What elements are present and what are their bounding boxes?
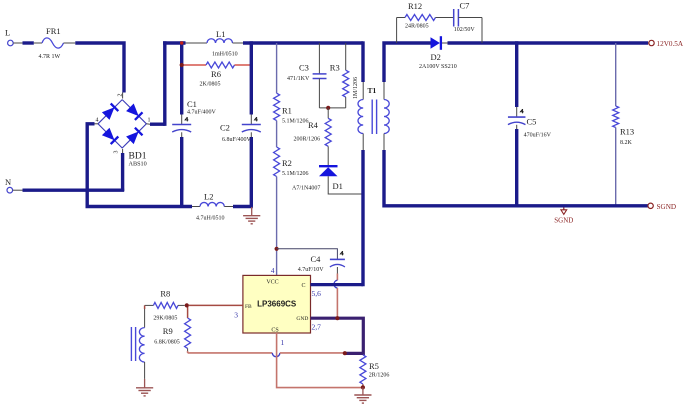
wire R2 to VCC pin bbox=[276, 177, 278, 276]
svg-text:1: 1 bbox=[281, 338, 285, 347]
svg-text:470uF/16V: 470uF/16V bbox=[524, 133, 552, 139]
junction FB node bbox=[185, 303, 189, 307]
svg-text:C1: C1 bbox=[187, 99, 197, 109]
wire FB to chip bbox=[189, 304, 243, 306]
resistor R4 bbox=[294, 108, 332, 165]
svg-text:SGND: SGND bbox=[657, 203, 677, 211]
svg-text:R3: R3 bbox=[330, 63, 340, 73]
wire D2 to output bbox=[448, 41, 649, 44]
svg-text:8.2K: 8.2K bbox=[620, 140, 633, 146]
svg-text:4: 4 bbox=[96, 118, 99, 124]
wire T1 secondary top bbox=[384, 43, 431, 82]
wire L to bridge pin2 bbox=[75, 43, 124, 99]
wire VCC to C4 bbox=[277, 249, 338, 260]
wire CS pin down bbox=[277, 333, 361, 388]
svg-text:A7/1N4007: A7/1N4007 bbox=[292, 186, 320, 192]
fusible resistor FR1 bbox=[23, 26, 76, 60]
diode D2 bbox=[419, 36, 457, 70]
svg-text:5,6: 5,6 bbox=[312, 289, 322, 298]
secondary ground rail bbox=[384, 150, 648, 206]
svg-text:5.1M/1206: 5.1M/1206 bbox=[282, 119, 309, 125]
svg-text:2: 2 bbox=[118, 94, 124, 97]
junction R6 left bbox=[180, 63, 184, 67]
resistor R5 bbox=[360, 355, 389, 388]
svg-text:R13: R13 bbox=[620, 127, 634, 137]
svg-text:R4: R4 bbox=[308, 120, 319, 130]
svg-text:C7: C7 bbox=[460, 1, 470, 11]
svg-text:24R/0805: 24R/0805 bbox=[405, 24, 429, 30]
wire rail to T1 primary bbox=[361, 41, 364, 82]
svg-text:CS: CS bbox=[271, 328, 278, 334]
power symbol SGND bbox=[554, 208, 573, 225]
resistor R13 bbox=[613, 43, 634, 206]
aux ground bbox=[136, 379, 153, 396]
input terminal L bbox=[5, 28, 23, 46]
svg-text:C: C bbox=[301, 283, 305, 289]
capacitor C2 bbox=[220, 41, 261, 206]
svg-text:N: N bbox=[5, 177, 11, 187]
junction VCC node bbox=[275, 247, 279, 251]
svg-text:R5: R5 bbox=[369, 361, 379, 371]
snubber wire left leg bbox=[396, 18, 398, 44]
svg-text:FR1: FR1 bbox=[46, 26, 61, 36]
svg-text:C2: C2 bbox=[220, 123, 230, 133]
svg-text:471/1KV: 471/1KV bbox=[287, 76, 310, 82]
resistor R2 bbox=[274, 147, 309, 177]
svg-text:2R/1206: 2R/1206 bbox=[369, 373, 390, 379]
svg-text:FB: FB bbox=[245, 304, 252, 310]
wire R1 to R2 bbox=[276, 121, 278, 147]
inductor L1 bbox=[186, 29, 244, 58]
svg-text:4.7uF/400V: 4.7uF/400V bbox=[187, 110, 217, 116]
wire DC+ rail right bbox=[243, 41, 363, 44]
wire C4 to GND net with hop bbox=[334, 274, 337, 318]
input terminal N bbox=[5, 177, 23, 193]
capacitor C4 bbox=[298, 251, 345, 273]
R5 ground bbox=[354, 387, 371, 403]
svg-text:4.7R 1W: 4.7R 1W bbox=[39, 54, 61, 60]
svg-text:1mH/0510: 1mH/0510 bbox=[212, 52, 238, 58]
svg-text:4.7uH/0510: 4.7uH/0510 bbox=[196, 216, 225, 222]
wire C pin to switch node bbox=[311, 283, 364, 286]
junction rail C1 bbox=[180, 41, 183, 44]
svg-text:L2: L2 bbox=[204, 192, 213, 202]
svg-text:12V0.5A: 12V0.5A bbox=[657, 40, 684, 48]
bridge rectifier BD1 bbox=[96, 94, 151, 168]
aux winding bbox=[131, 305, 144, 379]
snubber wire right leg bbox=[481, 18, 483, 44]
resistor R9 bbox=[154, 305, 190, 351]
svg-text:R6: R6 bbox=[211, 69, 221, 79]
svg-text:R12: R12 bbox=[408, 1, 422, 11]
svg-text:L: L bbox=[5, 28, 10, 38]
svg-text:6.8uF/400V: 6.8uF/400V bbox=[222, 137, 252, 143]
svg-text:R8: R8 bbox=[160, 289, 170, 299]
svg-text:1M/1206: 1M/1206 bbox=[353, 77, 359, 99]
primary ground under C2 bbox=[243, 207, 260, 224]
svg-text:L1: L1 bbox=[216, 29, 225, 39]
svg-text:R1: R1 bbox=[282, 106, 292, 116]
resistor R3 bbox=[330, 43, 359, 108]
wire bridge pin1 to DC rail bbox=[146, 41, 164, 126]
svg-text:5.1M/1206: 5.1M/1206 bbox=[282, 171, 309, 177]
svg-text:2,7: 2,7 bbox=[312, 323, 322, 332]
wire DC+ rail left bbox=[163, 41, 185, 44]
resistor R6 bbox=[182, 62, 252, 88]
capacitor C5 bbox=[508, 41, 552, 206]
wire N to bridge pin3 bbox=[23, 149, 125, 191]
svg-text:4.7uF/10V: 4.7uF/10V bbox=[298, 267, 325, 273]
svg-text:3: 3 bbox=[114, 151, 120, 154]
wire R9 to CS node bbox=[188, 351, 347, 357]
junction R5 bottom bbox=[361, 385, 365, 389]
svg-text:R2: R2 bbox=[282, 158, 292, 168]
svg-text:T1: T1 bbox=[368, 86, 377, 95]
output terminal 12V bbox=[648, 40, 684, 48]
capacitor C1 bbox=[172, 41, 216, 206]
svg-text:GND: GND bbox=[296, 316, 308, 322]
svg-text:4: 4 bbox=[271, 266, 275, 275]
svg-text:6.8K/0805: 6.8K/0805 bbox=[154, 340, 180, 346]
transformer T1 bbox=[358, 82, 389, 150]
svg-text:ABS10: ABS10 bbox=[129, 161, 147, 168]
svg-text:200R/1206: 200R/1206 bbox=[294, 137, 321, 143]
svg-text:2K/0805: 2K/0805 bbox=[200, 82, 221, 88]
wire bridge pin4 to bottom rail bbox=[87, 124, 192, 207]
svg-text:C4: C4 bbox=[311, 254, 322, 264]
svg-text:D2: D2 bbox=[431, 52, 441, 62]
inductor L2 bbox=[192, 192, 253, 222]
resistor R12 bbox=[397, 1, 454, 30]
wire T1 primary to switch node bbox=[361, 150, 364, 286]
wire clamp node bbox=[319, 106, 345, 110]
resistor R1 bbox=[274, 93, 309, 124]
svg-text:SGND: SGND bbox=[554, 217, 573, 225]
wire rail to R1 bbox=[276, 43, 278, 93]
diode D1 bbox=[292, 166, 343, 191]
svg-text:VCC: VCC bbox=[266, 280, 278, 286]
svg-text:29K/0805: 29K/0805 bbox=[153, 316, 177, 322]
svg-text:C3: C3 bbox=[299, 63, 309, 73]
op-amp U1 LP3669CS body bbox=[243, 275, 311, 333]
svg-text:102/50V: 102/50V bbox=[454, 27, 476, 33]
svg-text:3: 3 bbox=[234, 311, 238, 320]
svg-text:D1: D1 bbox=[333, 181, 343, 191]
capacitor C7 bbox=[454, 1, 482, 34]
svg-text:2A100V SS210: 2A100V SS210 bbox=[419, 64, 457, 70]
resistor R8 bbox=[145, 289, 185, 322]
svg-text:LP3669CS: LP3669CS bbox=[257, 300, 297, 309]
wire GND pin run bbox=[311, 318, 364, 353]
svg-text:C5: C5 bbox=[527, 117, 537, 127]
output terminal SGND bbox=[648, 203, 676, 211]
junction C4 GND bbox=[335, 316, 339, 320]
svg-text:R9: R9 bbox=[163, 326, 173, 336]
capacitor C3 bbox=[287, 43, 327, 108]
wire D1 anode to switch node bbox=[328, 176, 363, 194]
